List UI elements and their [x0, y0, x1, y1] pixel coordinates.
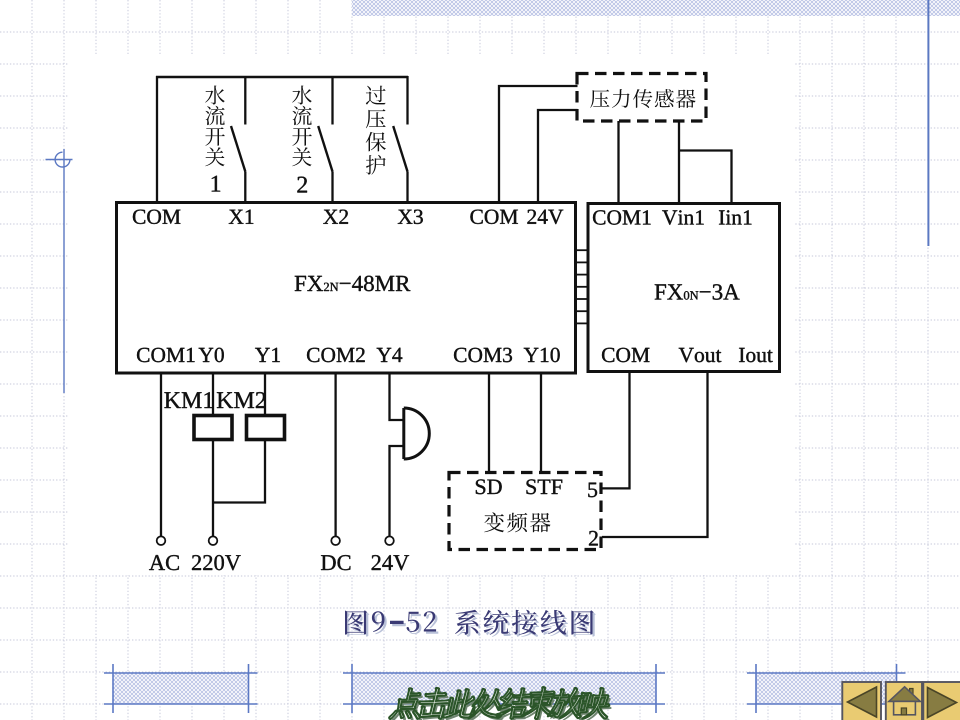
footer bar right: [756, 673, 897, 704]
label: inverter: [484, 512, 550, 532]
terminal circle 220V: [209, 536, 218, 545]
extension cable ticks: [577, 250, 588, 323]
wire: COM1 down: [160, 373, 162, 537]
wire: Y0 to KM1: [212, 373, 214, 416]
wire: sensor branch to Iin1: [679, 151, 732, 205]
wire: COM to sensor: [499, 86, 578, 202]
switch S2 blade: [318, 126, 332, 172]
terminal circle 24V: [385, 536, 394, 545]
wire: bell to 24V terminal: [390, 446, 403, 537]
PLC FX2N-48MR box: [117, 203, 576, 374]
label: water flow switch 2 (vertical): [292, 86, 312, 167]
wire: 24V to sensor: [538, 110, 578, 202]
wire: sensor to Vin1: [678, 121, 680, 204]
switch number labels: [212, 176, 221, 192]
right template line: [927, 0, 929, 246]
nav button back: [842, 682, 881, 720]
FX0N bottom terminal labels: [602, 348, 650, 362]
PLC bottom terminal labels: [137, 348, 195, 362]
label KM1: [164, 392, 213, 408]
wire: COM3 to inverter SD: [488, 373, 490, 471]
switch S1 lower stub: [244, 172, 246, 204]
switch S1 blade: [231, 126, 245, 172]
wire: COM riser: [156, 76, 158, 202]
footer bar left: [113, 673, 249, 704]
switch S3 lower stub: [406, 172, 408, 204]
wire: KM1 to 220V terminal: [212, 439, 214, 537]
pressure sensor box: [577, 74, 706, 122]
top banner band: [352, 0, 960, 16]
bell symbol: [402, 408, 405, 459]
terminal circle DC: [331, 536, 340, 545]
left template motif: [46, 149, 73, 393]
label: overpressure protection (vertical): [366, 86, 386, 175]
footer bar middle: [352, 673, 656, 704]
wire: Y4 to bell: [390, 373, 403, 420]
label AC 220V: [149, 555, 179, 570]
switch S2 upper stub: [331, 76, 333, 125]
PLC top terminal labels: [133, 210, 181, 224]
terminal circle AC: [157, 536, 166, 545]
label KM2: [217, 392, 266, 408]
nav button forward: [923, 682, 960, 720]
wire: FX0N COM to inverter 5: [602, 372, 630, 488]
contactor coil KM2: [247, 416, 285, 440]
FX0N-3A box: [588, 204, 780, 372]
switch S1 upper stub: [244, 76, 246, 125]
label FX0N-3A: [655, 284, 740, 299]
inverter box: [449, 473, 601, 550]
switch S3 upper stub: [406, 76, 408, 125]
label: water flow switch 1 (vertical): [205, 86, 225, 167]
wire: Y1 to KM2: [264, 373, 266, 416]
wire: input top bus: [156, 76, 408, 78]
inverter terminal labels: [476, 479, 502, 494]
contactor coil KM1: [194, 416, 232, 440]
label DC 24V: [321, 555, 350, 570]
wire: FX0N Vout to inverter 2: [602, 372, 708, 537]
nav button home: [886, 682, 922, 720]
switch S3 blade: [393, 126, 407, 172]
diagram panel: [68, 54, 795, 575]
FX0N top terminal labels: [593, 210, 651, 224]
wire: Y10 to inverter STF: [540, 373, 542, 471]
wire: COM2 down: [334, 373, 336, 537]
label: pressure sensor: [590, 89, 695, 108]
switch S2 lower stub: [331, 172, 333, 204]
label FX2N-48MR: [295, 276, 411, 292]
wire: KM2 down and left: [213, 439, 265, 503]
wire: sensor to COM1: [617, 121, 619, 204]
